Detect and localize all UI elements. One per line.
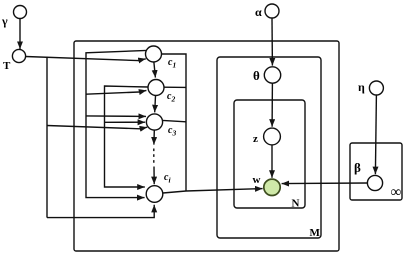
svg-text:c3: c3 [168,125,176,138]
svg-text:θ: θ [253,68,260,83]
wire c1 to c2 chain [154,62,156,77]
wire c2 output right [164,86,186,88]
svg-text:T: T [3,60,11,72]
node ci [146,186,163,203]
svg-text:M: M [310,227,321,239]
wire eta to beta [375,95,376,174]
svg-text:w: w [253,174,261,186]
wire beta to w [282,182,368,185]
svg-text:ci: ci [164,172,171,185]
node c3 [146,114,162,130]
node T [12,49,25,62]
node z [264,128,281,145]
svg-text:α: α [255,5,262,19]
outer plate [74,41,339,251]
svg-text:c2: c2 [167,91,175,104]
svg-text:z: z [253,133,258,145]
svg-text:N: N [292,198,300,210]
wire dashes to ci arrow [153,167,155,185]
svg-text:c1: c1 [168,57,176,70]
wire T to c3 [47,126,147,129]
wire alpha to theta [271,18,273,65]
wire T to c1 [26,57,146,61]
wire gamma to T [19,19,21,50]
dashed chain segment [153,149,155,165]
wire c1 left trunk [86,50,147,197]
wire c1 output right [162,54,187,191]
wire c3 output right [163,120,186,121]
node beta [367,175,382,190]
wire trunk86 to c3 [86,115,146,118]
wire ci to w [163,189,263,193]
wire T trunk down [46,57,48,218]
wire trunk104 to c3 [105,121,146,123]
wire c2 left trunk [105,86,149,187]
plate infinity [350,143,402,200]
plate N [234,100,305,208]
node gamma [14,6,27,19]
plate M [217,57,321,238]
wire c3 down arrow [153,130,155,144]
node c1 [146,46,162,62]
svg-text:β: β [354,160,361,175]
wire z to w [271,145,273,178]
svg-text:η: η [358,80,365,94]
node w shaded [264,179,280,195]
wire c2 to c3 chain [154,96,157,113]
node eta [369,81,383,95]
wire T to ci (bottom) [47,205,154,218]
node theta [264,67,280,83]
node alpha [265,4,279,18]
svg-text:γ: γ [1,14,8,28]
svg-text:∞: ∞ [391,185,402,201]
wire trunk86 to c2 [86,90,146,94]
wire theta to z [271,83,273,126]
node c2 [148,80,164,96]
